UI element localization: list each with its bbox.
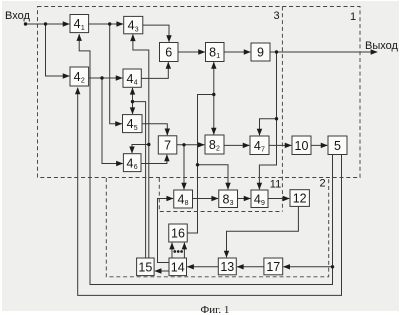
svg-text:14: 14	[171, 260, 185, 274]
svg-text:6: 6	[165, 46, 172, 60]
svg-text:4: 4	[254, 139, 261, 153]
svg-text:9: 9	[257, 46, 264, 60]
svg-text:2: 2	[216, 146, 220, 153]
svg-text:7: 7	[164, 138, 171, 152]
svg-text:2: 2	[319, 178, 325, 190]
svg-text:1: 1	[216, 53, 220, 60]
svg-text:4: 4	[127, 156, 134, 170]
svg-text:4: 4	[74, 17, 81, 31]
svg-text:Выход: Выход	[365, 40, 398, 52]
svg-text:17: 17	[266, 260, 280, 274]
svg-text:16: 16	[171, 227, 185, 241]
svg-text:4: 4	[177, 193, 184, 207]
svg-text:15: 15	[138, 260, 152, 274]
svg-text:6: 6	[134, 164, 138, 171]
svg-text:5: 5	[134, 125, 138, 132]
svg-text:4: 4	[74, 70, 81, 84]
svg-text:7: 7	[261, 146, 265, 153]
svg-text:4: 4	[126, 72, 133, 86]
svg-text:2: 2	[81, 78, 85, 85]
svg-text:10: 10	[295, 139, 309, 153]
svg-text:5: 5	[334, 139, 341, 153]
svg-text:8: 8	[209, 46, 216, 60]
svg-text:12: 12	[293, 192, 307, 206]
svg-text:4: 4	[127, 117, 134, 131]
svg-text:4: 4	[254, 192, 261, 206]
svg-text:1: 1	[350, 11, 356, 23]
svg-text:4: 4	[134, 79, 138, 86]
svg-text:8: 8	[185, 200, 189, 207]
svg-text:9: 9	[261, 200, 265, 207]
svg-text:1: 1	[81, 25, 85, 32]
svg-text:3: 3	[135, 26, 139, 33]
svg-text:Фиг. 1: Фиг. 1	[201, 304, 230, 315]
svg-text:8: 8	[222, 192, 229, 206]
svg-text:11: 11	[270, 179, 281, 191]
svg-text:4: 4	[128, 19, 135, 33]
svg-text:Вход: Вход	[5, 10, 30, 22]
svg-text:3: 3	[230, 200, 234, 207]
svg-text:8: 8	[209, 138, 216, 152]
svg-text:3: 3	[273, 10, 279, 22]
svg-text:13: 13	[220, 260, 234, 274]
